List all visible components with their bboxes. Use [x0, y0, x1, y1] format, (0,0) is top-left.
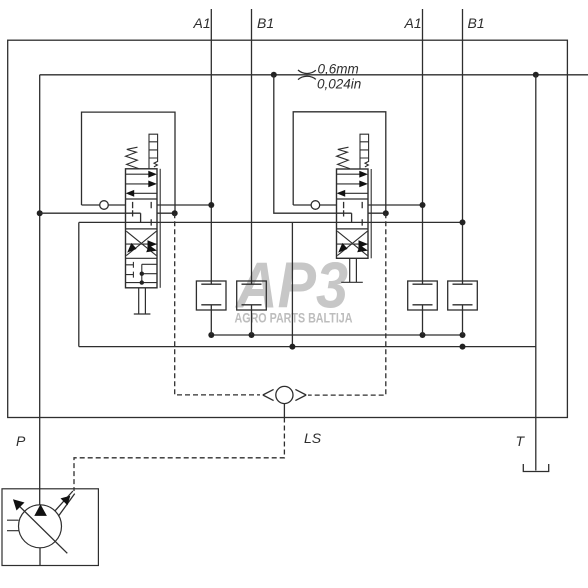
svg-text:P: P [16, 433, 26, 449]
wire A1-1 vertical [210, 9, 212, 284]
junction dot LS valve 2 [383, 210, 389, 216]
pump variable arrow [20, 506, 68, 553]
section C crossed arrows [126, 231, 158, 255]
pump bottom shaft line [39, 548, 41, 566]
junction dot on gallery at T line [533, 72, 539, 78]
junction dot P to valve 1 [37, 210, 43, 216]
svg-text:0,6mm: 0,6mm [318, 62, 359, 77]
LS dashed drop valve 1 [175, 213, 260, 395]
section B blocked port ticks [133, 202, 152, 226]
junction dot rail B1-1 [249, 332, 255, 338]
section B Z step [140, 213, 142, 222]
wire bypass bottom horizontal [79, 346, 536, 348]
tank symbol [523, 464, 548, 472]
valve V2 side line [370, 169, 372, 258]
svg-text:0,024in: 0,024in [317, 77, 361, 92]
junction dot rail A1-1 [208, 332, 214, 338]
wire P drop to valve 2 [274, 75, 352, 213]
junction dot B1-2 end [460, 219, 466, 225]
svg-text:AGRO PARTS BALTIJA: AGRO PARTS BALTIJA [235, 310, 353, 326]
svg-text:A1: A1 [193, 15, 211, 31]
valve V2 section dividers [337, 199, 369, 229]
outer enclosure box [8, 40, 568, 417]
svg-text:B1: B1 [468, 15, 485, 31]
svg-text:T: T [516, 433, 526, 449]
shock valve plug box A1-2 [408, 281, 438, 310]
wire B1-1 vertical [251, 9, 253, 284]
wire P gallery horizontal [40, 74, 588, 76]
wire valve2 A port to A1 [368, 204, 423, 206]
section A flow arrows [126, 174, 158, 193]
LS shuttle left seat [263, 389, 274, 400]
LS shuttle right seat [295, 389, 306, 400]
wire B1-2 vertical [462, 9, 464, 284]
plug ticks B1-1 [242, 284, 262, 335]
compensator loop valve 2 [293, 112, 386, 213]
valve V1 section dividers [126, 199, 158, 258]
valve V1 side line [159, 169, 161, 288]
valve V1 body [126, 169, 158, 288]
pump LS control arrowhead [61, 496, 71, 506]
valve V2 body [337, 169, 369, 258]
compensator loop valve 1 [82, 112, 176, 213]
wire shock-valve rail horizontal [211, 334, 462, 336]
wire A1-2 vertical [422, 9, 424, 284]
junction dot rail B1-2 [460, 332, 466, 338]
shock valve plug box B1-2 [448, 281, 478, 310]
wire bypass gallery horizontal [79, 221, 463, 223]
pilot line with measuring circle valve 1 [82, 204, 126, 206]
LS shuttle ball [276, 386, 293, 403]
wire valve1 A port to A1 [157, 204, 211, 206]
measuring circle valve 2 [311, 201, 320, 210]
wire valve1 LS tap [157, 212, 175, 214]
wire T vertical [535, 75, 537, 471]
junction dot on gallery at P drop 2 [271, 72, 277, 78]
shock valve plug box B1-1 [237, 281, 267, 310]
valve V2 end pin [341, 258, 363, 282]
valve V1 spool assembly [126, 134, 158, 255]
wire bypass mid vertical [291, 222, 293, 346]
pump circle [19, 505, 62, 548]
wire P vertical [39, 75, 41, 505]
plug ticks B1-2 [453, 284, 473, 335]
LS port line solid [283, 404, 285, 418]
junction dot bypass mid bottom [289, 344, 295, 350]
measuring circle valve 1 [100, 201, 109, 210]
pilot section dots [140, 272, 144, 276]
svg-text:B1: B1 [257, 15, 274, 31]
pump drain stubs [7, 520, 19, 531]
plug ticks A1-1 [201, 284, 221, 335]
plug ticks A1-2 [413, 284, 433, 335]
junction dot A1-1 [208, 202, 214, 208]
valve V1 end pin [134, 288, 151, 314]
wire P supply to valve 1 [40, 212, 141, 214]
junction dot A1-2 [420, 202, 426, 208]
valve V2 spool assembly (reuse) [337, 134, 369, 255]
shock valve plug box A1-1 [196, 281, 226, 310]
spring [126, 147, 139, 168]
valve V1 pilot section internals [126, 262, 158, 283]
svg-text:LS: LS [304, 430, 322, 446]
junction dot LS valve 1 [172, 210, 178, 216]
junction dot rail A1-2 [420, 332, 426, 338]
LS port dashed to pump [74, 418, 284, 492]
orifice 0,6mm symbol [298, 70, 316, 80]
svg-text:A1: A1 [404, 15, 422, 31]
pilot line with measuring circle valve 2 [293, 204, 336, 206]
LS dashed drop valve 2 [308, 213, 386, 395]
proportional actuator ladder [149, 134, 158, 168]
wire valve2 LS tap [368, 212, 386, 214]
pump outlet triangle [34, 504, 47, 516]
pump box [2, 489, 98, 566]
junction dot bypass bottom at B1-2 [460, 344, 466, 350]
pump LS control arm [55, 491, 75, 516]
wire bypass left edge vertical [78, 222, 80, 346]
